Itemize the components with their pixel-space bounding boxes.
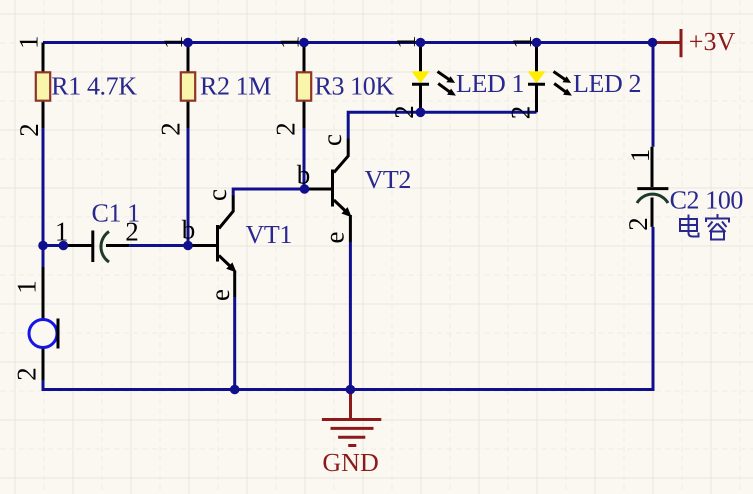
svg-text:2: 2 <box>271 122 301 136</box>
svg-text:b: b <box>182 215 196 245</box>
svg-text:1: 1 <box>625 149 655 163</box>
svg-text:1: 1 <box>275 36 305 50</box>
svg-text:C2 100: C2 100 <box>670 186 744 215</box>
svg-text:c: c <box>317 134 347 146</box>
svg-text:2: 2 <box>12 367 42 381</box>
svg-text:1: 1 <box>12 280 42 294</box>
svg-text:e: e <box>205 289 235 301</box>
svg-text:R2 1M: R2 1M <box>200 72 271 101</box>
svg-text:1: 1 <box>14 36 44 50</box>
svg-text:1: 1 <box>391 35 421 49</box>
svg-text:2: 2 <box>14 123 44 137</box>
svg-text:2: 2 <box>389 105 419 119</box>
svg-text:1: 1 <box>55 217 69 247</box>
svg-text:R1 4.7K: R1 4.7K <box>51 72 137 101</box>
svg-text:R3 10K: R3 10K <box>315 72 395 101</box>
svg-text:2: 2 <box>623 217 653 231</box>
svg-text:b: b <box>297 160 311 190</box>
svg-text:+3V: +3V <box>689 27 736 56</box>
svg-text:VT2: VT2 <box>365 165 411 194</box>
svg-text:GND: GND <box>322 448 378 477</box>
svg-text:1: 1 <box>158 36 188 50</box>
svg-text:e: e <box>320 231 350 243</box>
svg-text:LED 1: LED 1 <box>456 69 524 98</box>
svg-text:1: 1 <box>507 35 537 49</box>
svg-text:2: 2 <box>125 217 139 247</box>
svg-text:2: 2 <box>156 122 186 136</box>
svg-text:2: 2 <box>506 106 536 120</box>
svg-text:c: c <box>202 189 232 201</box>
svg-text:VT1: VT1 <box>246 220 292 249</box>
svg-text:LED 2: LED 2 <box>573 69 641 98</box>
